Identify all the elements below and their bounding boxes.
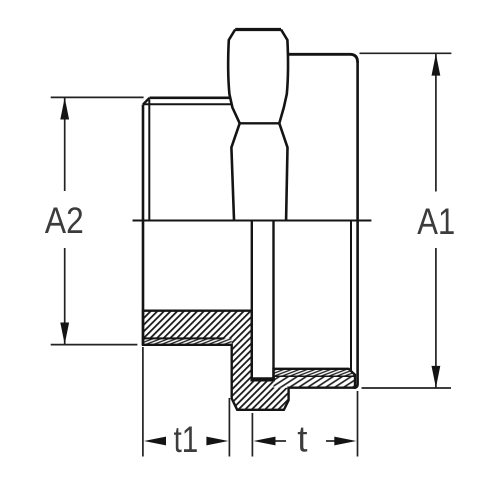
dimension t arrow left <box>254 437 276 446</box>
section hatch left wall (45deg) <box>143 311 252 339</box>
dimension A1 arrow down <box>432 366 441 388</box>
dimension A1 line lower segment <box>435 248 437 388</box>
left body top edge <box>150 97 232 100</box>
dimension A1 line upper segment <box>435 54 437 192</box>
dimension t1 arrow right <box>206 437 228 446</box>
internal step line left wall <box>143 337 224 339</box>
label t <box>298 428 307 452</box>
right body right edge <box>354 62 358 388</box>
left body left edge <box>142 105 145 346</box>
dimension t line left stub <box>272 440 286 442</box>
section hatch lower hub and spigot (45deg) <box>232 338 289 409</box>
dimension t1 arrow left <box>144 437 166 446</box>
dimension t right extension line <box>357 391 359 457</box>
left body inner chamfer line <box>144 103 231 105</box>
dimension A2 line upper segment <box>64 98 66 191</box>
section hatch right band upper strip (shallow) <box>274 369 356 376</box>
hex left upper flank <box>228 30 239 124</box>
joint line across both bodies <box>133 220 372 222</box>
dimension A2 bottom extension line <box>51 344 138 346</box>
dimension t line right stub <box>326 440 337 442</box>
inner tube right edge <box>272 221 274 380</box>
dimension A1 bottom extension line <box>362 387 452 389</box>
dimension A2 arrow up <box>60 98 69 120</box>
hatched region outer boundary <box>143 311 355 410</box>
internal divider right band <box>274 375 356 377</box>
right body top edge with rounded corner <box>289 54 358 62</box>
section hatch right band lower strip (32deg) <box>274 376 356 388</box>
hex left lower flank <box>231 123 239 219</box>
dimension t arrow right <box>334 437 356 446</box>
inner tube left edge <box>251 221 253 380</box>
hex right upper flank <box>279 30 288 124</box>
hex right lower flank <box>279 123 287 219</box>
dimension A1 arrow up <box>432 54 441 76</box>
dimension A2 arrow down <box>60 323 69 345</box>
label A1 <box>417 209 453 235</box>
dimension A2 top extension line <box>51 96 144 98</box>
label t1 <box>174 427 197 453</box>
hex flats top edge <box>235 28 281 31</box>
dimension t1 right extension line <box>228 398 230 457</box>
hex waist line <box>240 122 280 124</box>
dimension A2 line lower segment <box>64 248 66 344</box>
dimension t left extension line <box>251 413 253 457</box>
left body inner vertical <box>148 100 150 221</box>
dimension A1 top extension line <box>360 52 452 54</box>
left body top chamfer <box>143 98 150 105</box>
right body inner wall line <box>350 221 352 372</box>
inner tube bottom thick edge <box>250 377 275 381</box>
section hatch thin strip left (shallow) <box>143 338 232 344</box>
label A2 <box>45 207 82 233</box>
dimension t1 left extension line <box>142 347 144 457</box>
